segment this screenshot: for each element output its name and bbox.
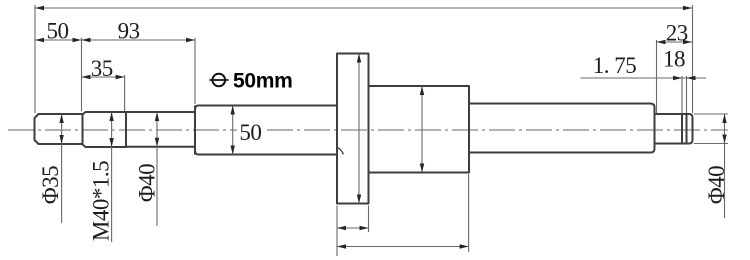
svg-text:35: 35 <box>91 56 113 81</box>
svg-text:1. 75: 1. 75 <box>593 53 637 78</box>
svg-text:93: 93 <box>118 19 140 44</box>
svg-text:18: 18 <box>663 47 685 72</box>
svg-text:50mm: 50mm <box>233 70 293 93</box>
svg-text:Φ35: Φ35 <box>38 166 63 204</box>
svg-text:Φ40: Φ40 <box>135 164 160 202</box>
svg-text:50: 50 <box>239 120 261 145</box>
svg-text:Φ40: Φ40 <box>704 166 729 204</box>
svg-text:M40*1.5: M40*1.5 <box>89 161 114 241</box>
svg-text:23: 23 <box>666 20 688 45</box>
svg-text:50: 50 <box>47 19 69 44</box>
